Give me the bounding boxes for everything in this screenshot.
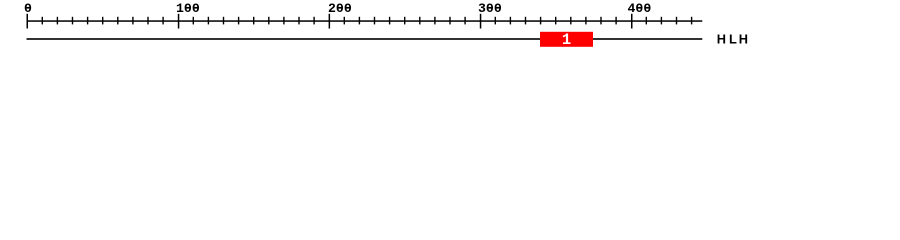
svg-text:1: 1: [562, 31, 571, 49]
svg-text:H: H: [717, 32, 726, 47]
svg-text:L: L: [729, 32, 737, 47]
svg-text:H: H: [739, 32, 748, 47]
